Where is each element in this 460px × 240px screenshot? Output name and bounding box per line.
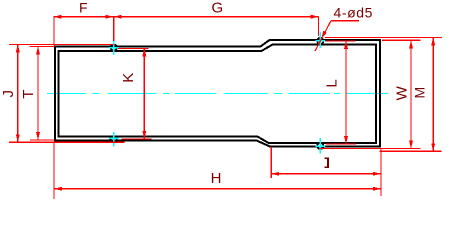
- dim G arrow left: [114, 15, 122, 19]
- dim K line: [143, 48, 145, 138]
- dim T line: [37, 46, 39, 140]
- svg-text:F: F: [79, 0, 88, 16]
- ext line x54 top (F left): [53, 17, 55, 46]
- dim W arrow bottom: [409, 140, 413, 148]
- dim L arrow bottom: [344, 136, 348, 144]
- leader 4-od5 diagonal: [315, 21, 331, 51]
- part outline inner wall: [59, 45, 377, 144]
- dim I line: [271, 173, 381, 175]
- crosshair hole top-left: [109, 40, 119, 56]
- dim F arrow left: [54, 15, 62, 19]
- svg-text:K: K: [120, 73, 137, 83]
- centerline (cyan dash-dot axis): [47, 93, 388, 95]
- svg-text:T: T: [20, 90, 37, 99]
- ext K bottom y136: [121, 138, 151, 140]
- dim G line: [114, 16, 319, 18]
- ext W bottom y148: [320, 148, 421, 150]
- ext top-left y44: [9, 43, 114, 45]
- ext M top y37: [325, 36, 442, 38]
- svg-text:4-ød5: 4-ød5: [334, 4, 374, 20]
- dim W line: [410, 40, 412, 148]
- dim F line: [54, 16, 114, 18]
- dim M arrow bottom: [431, 143, 435, 151]
- ext L bottom y144: [326, 143, 356, 145]
- svg-text:M: M: [412, 87, 428, 99]
- dim F arrow right: [106, 15, 114, 19]
- dim I arrow left: [271, 172, 279, 176]
- dim L line: [345, 41, 347, 144]
- svg-text:W: W: [393, 85, 410, 100]
- leader 4-od5 arrowhead: [321, 31, 327, 39]
- dim J line: [17, 44, 19, 142]
- crosshair hole top-right: [316, 32, 326, 48]
- dim M arrow top: [431, 37, 435, 45]
- ext bottom-left y140 (T): [30, 139, 55, 141]
- ext L top y41: [325, 40, 356, 42]
- hole top-left: [111, 45, 117, 51]
- hole top-right: [317, 38, 323, 44]
- part outline outer profile: [55, 40, 380, 147]
- dim H arrow right: [373, 187, 381, 191]
- ext W top y40: [382, 39, 421, 41]
- dim I arrow right: [373, 172, 381, 176]
- dim M line: [432, 37, 434, 151]
- leader 4-od5 shoulder: [331, 20, 359, 22]
- ext M bottom y151: [380, 150, 442, 152]
- crosshair hole bottom-left: [109, 132, 119, 147]
- dim T arrow bottom: [36, 132, 40, 140]
- ext K top y48: [118, 47, 149, 49]
- dim H arrow left: [54, 187, 62, 191]
- ext line x271 (I left): [270, 147, 272, 178]
- dim H line: [54, 188, 381, 190]
- crosshair hole bottom-right: [316, 138, 326, 154]
- dim T arrow top: [36, 46, 40, 54]
- svg-text:H: H: [211, 170, 222, 187]
- ext line x113.7 (F/G): [113, 17, 115, 41]
- svg-text:J: J: [0, 90, 17, 98]
- dim G arrow right: [311, 15, 319, 19]
- svg-text:L: L: [324, 79, 341, 87]
- label I (rotated): [325, 158, 329, 168]
- dim W arrow top: [409, 40, 413, 48]
- dim J arrow top: [16, 44, 20, 52]
- ext line x318.6 (G right): [318, 17, 320, 36]
- hole bottom-right: [317, 143, 323, 149]
- svg-text:G: G: [211, 0, 223, 17]
- ext line x54 bottom (H left): [53, 142, 55, 200]
- ext bottom-left y143 (J): [9, 141, 125, 143]
- dim J arrow bottom: [16, 134, 20, 142]
- ext line x381 (I/H right): [380, 148, 382, 196]
- dim K arrow top: [142, 48, 146, 56]
- ext top-left y46 (T): [30, 45, 55, 47]
- dim L arrow top: [344, 41, 348, 49]
- red dimension graphics: [9, 15, 442, 199]
- dim K arrow bottom: [142, 131, 146, 139]
- hole bottom-left: [111, 136, 117, 142]
